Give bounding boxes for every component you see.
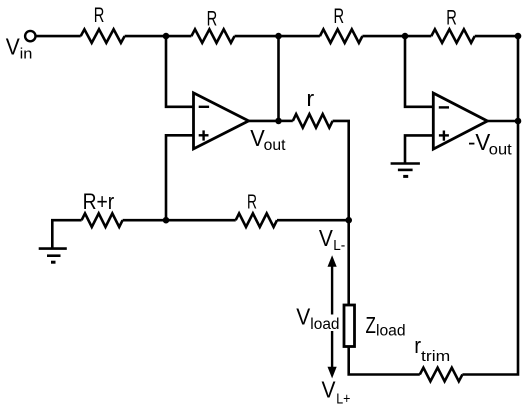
svg-text:r: r [414,333,421,358]
label VL- [319,225,345,254]
node B junction [275,33,282,40]
wire node B down to node Vout [277,36,280,121]
label VL+ [322,377,351,408]
wire node VL- down to Zload [347,220,350,305]
svg-text:V: V [296,304,311,330]
resistor R1 [81,29,125,43]
svg-text:out: out [264,137,286,154]
voltage arrow Vload (double headed) [328,255,337,378]
svg-text:V: V [319,225,334,251]
svg-text:r: r [306,86,314,111]
wire R3 to node C [362,35,405,38]
load impedance Zload [344,305,355,347]
wire Vin terminal to R1 [36,35,81,38]
resistor R3 [320,29,363,43]
node -Vout junction [515,118,522,125]
svg-text:R: R [207,7,218,30]
node VL- junction [345,217,352,224]
label Vout [250,125,286,154]
input terminal Vin [25,31,35,41]
resistor rtrim [420,368,463,382]
wire R+r to node D [123,219,236,222]
wire R2 to node B [235,35,279,38]
wire U1 non-inverting input down to node D [166,135,194,220]
svg-text:L-: L- [333,237,345,254]
svg-text:V: V [6,33,21,59]
resistor R5 (feedback R) [236,213,277,227]
svg-text:out: out [489,142,513,159]
svg-text:-V: -V [468,129,491,155]
svg-text:R: R [94,4,105,27]
label Vin [6,33,33,62]
label Vload [296,304,341,334]
wire U2 non-inverting input to ground G2 [405,135,433,163]
ground G1 stub wire [52,220,81,248]
wire R4 to top-right corner node [475,35,518,38]
resistor R+r [82,213,123,227]
label -Vout [468,129,512,159]
svg-text:R: R [446,7,457,30]
top-right corner junction [515,33,522,40]
ground G1 [39,249,67,263]
node Vout junction [275,118,282,125]
svg-text:Z: Z [366,312,376,338]
wire R1 to node A [125,35,166,38]
resistor R2 [191,29,234,43]
svg-text:trim: trim [421,348,450,365]
op-amp U2 [433,93,487,149]
label Zload [366,312,406,340]
wire node C to R4 [405,35,431,38]
svg-text:L+: L+ [336,391,350,408]
svg-text:load: load [310,316,339,333]
ground G2 [391,164,420,177]
svg-text:R: R [334,5,345,28]
svg-text:R: R [247,190,257,213]
op-amp U1 [194,93,249,149]
svg-text:load: load [376,322,406,339]
wire r to node VL- [333,121,349,220]
svg-text:in: in [20,46,33,63]
wire rtrim to right rail and up to top-right corner [462,36,518,374]
wire node B to R3 [279,35,320,38]
node D junction [163,217,170,224]
wire node A down to U1 inverting input [166,36,194,107]
wire node Vout to r [279,120,293,123]
wire U2 output to node -Vout [487,120,518,123]
node A junction [163,33,170,40]
wire R5 to node VL- [277,219,349,222]
wire Zload to bottom rail [349,347,420,375]
resistor r [293,114,333,128]
svg-text:V: V [322,377,337,403]
label rtrim [414,333,450,365]
svg-text:R+r: R+r [83,189,115,214]
wire U1 output to node Vout [249,120,279,123]
node C junction [402,33,409,40]
wire node A to R2 [166,35,191,38]
resistor R4 [431,29,474,43]
wire node C down to U2 inverting input [405,36,433,107]
